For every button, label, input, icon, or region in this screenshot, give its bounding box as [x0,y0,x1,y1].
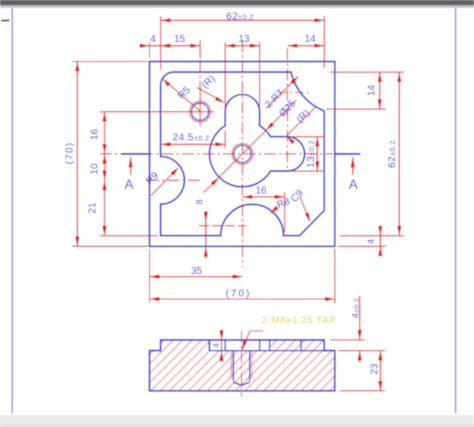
dimension phi25 diagonal line [203,100,296,193]
section edge slot junction [269,340,271,351]
extension R8 notch right [284,192,286,232]
dimension chain line left [104,112,106,236]
svg-text:14: 14 [367,85,378,97]
section arrow left [130,158,132,175]
svg-text:16: 16 [90,129,101,141]
section step pocket left [208,340,210,351]
extension line x=324.2 [323,16,325,68]
extension hole center left [100,111,186,113]
section edge slot end [300,340,302,351]
status bar [0,415,474,427]
svg-text:4: 4 [211,343,221,348]
tapped hole M8 top-left thread circle [190,101,211,122]
svg-text:10: 10 [90,163,101,175]
extension hole center top [199,42,201,58]
frame line left [11,8,13,413]
svg-text:(70): (70) [65,142,76,165]
centerline corner arc horizontal [278,92,310,94]
section line A-A left end [121,153,149,155]
thread line right [251,351,253,379]
toolbar strip [0,0,474,5]
svg-text:8: 8 [194,199,204,204]
dimension 14 right line [379,72,381,109]
svg-text:14: 14 [304,34,316,45]
leader R9 [151,168,178,195]
extension island top right [330,339,365,341]
svg-text:(70): (70) [226,289,252,300]
dimension 4+-0.2 tail [359,351,361,362]
leader 2-R7 [266,77,298,109]
hole center cross horizontal [186,111,214,113]
svg-text:A: A [349,177,358,192]
leader tap [242,331,250,351]
hole center cross vertical [199,90,201,126]
extension y=246.3 right [338,245,386,247]
centerline slot end vertical [286,48,288,172]
dimension 15 line [161,45,201,47]
center tapped hole thread circle [232,144,253,165]
extension x=149.5 bottom [149,249,151,303]
extension dome left [224,42,226,108]
extension y=235.7 left [100,235,158,237]
extension dome flank down [224,130,226,148]
svg-text:2-M8x1.25 TAP: 2-M8x1.25 TAP [262,315,337,326]
centerline R9 notch [147,179,203,181]
centerline vertical part center [241,40,243,267]
drill line right [249,351,251,381]
leader R5 [164,80,201,112]
drill line left [232,351,234,381]
extension y=72.1 right [330,71,404,73]
part outer square 70x70 [150,62,335,247]
dimension 4 line [143,45,168,47]
svg-text:35: 35 [191,266,203,277]
tapped hole M8 top-left drill circle [192,103,209,120]
dimension 16 middle line [242,196,284,198]
part inner profile R5 corner, (R) corner, C9 chamfer, R8 notch, R9 notch [161,72,325,236]
drill point [233,382,249,385]
extension y=109.1 right [326,108,386,110]
svg-text:4: 4 [366,239,376,244]
dimension (70) bottom line [150,298,335,300]
extension x=334.8 bottom [334,249,336,303]
svg-text:13: 13 [238,34,250,45]
keyhole pocket: 2-R7 dome, phi25 circle, slot [209,94,304,186]
section line A-A right end [335,153,360,155]
dimension 4+-0.2 line [359,296,361,340]
svg-text:A: A [124,177,133,192]
section edge dome left [224,340,226,351]
dimension 8 line [205,211,207,258]
section pocket floor [209,350,324,352]
center tapped hole drill circle [234,145,251,162]
centerline vertical hole M8 [199,40,201,97]
leader R8 [271,207,278,214]
section arrow right [352,158,354,175]
extension x=149.5 top [149,42,151,58]
frame line right [455,8,457,413]
extension y=246.3 left [72,245,148,247]
dimension 13 right line [316,137,318,171]
dimension 4 section line [221,331,223,362]
section edge dome right [259,340,261,351]
svg-text:15: 15 [174,34,186,45]
extension slot top [292,136,325,138]
centerline section tap [241,331,243,397]
left UI tick [1,20,10,22]
dimension 14 line [287,45,324,47]
dimension 62 top line [161,19,325,21]
dimension 4 right line [379,226,381,256]
dimension 35 line [150,276,243,278]
dimension (70) left line [76,62,78,247]
dimension 24.5 line [161,143,226,145]
svg-text:21: 21 [88,202,99,214]
extension y=61.5 left [72,61,148,63]
dimension 13 line [225,45,259,47]
extension band top right [338,350,385,352]
extension line x=160.6 [160,16,162,70]
extension y=235.7 right [340,235,404,237]
hidden line y=225.7 [199,225,246,227]
svg-text:16: 16 [255,186,267,197]
leader (R) right [287,107,316,136]
extension dome right [259,42,261,108]
leader C9 [300,197,310,221]
dimension 23 line [379,351,381,391]
extension bottom right [340,390,385,392]
centerline A-A horizontal [100,153,333,155]
svg-text:23: 23 [370,363,381,375]
svg-text:4: 4 [150,34,156,45]
extension slot bottom [292,170,325,172]
section hatching [0,325,461,395]
thread line left [230,351,232,379]
section outline [150,340,335,391]
dimension 62 right line [398,72,400,236]
leader (R) top-left [197,88,223,102]
